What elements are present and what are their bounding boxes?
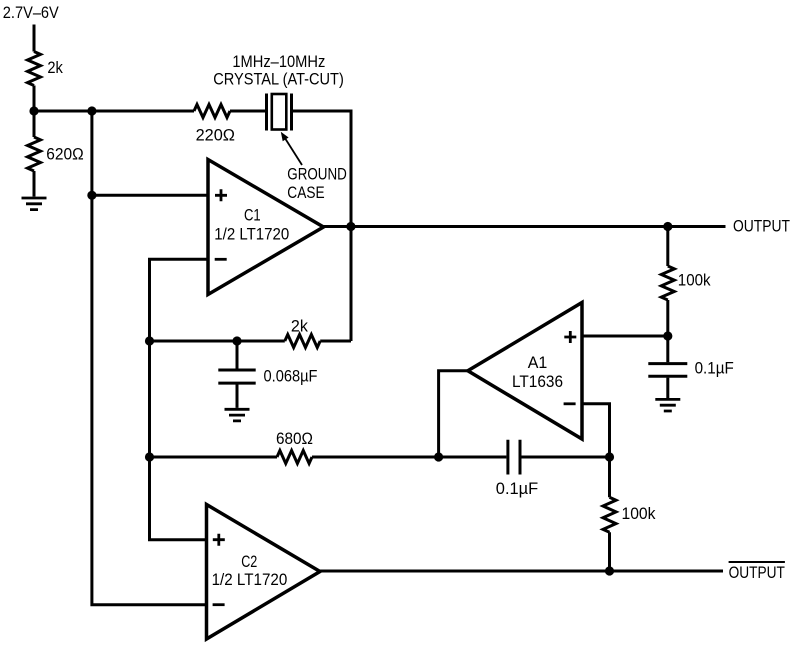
svg-text:2k: 2k — [47, 58, 63, 77]
svg-text:CASE: CASE — [287, 183, 324, 202]
svg-text:100k: 100k — [678, 271, 711, 290]
svg-text:0.1µF: 0.1µF — [496, 479, 538, 498]
svg-text:GROUND: GROUND — [287, 165, 347, 184]
svg-text:CRYSTAL (AT-CUT): CRYSTAL (AT-CUT) — [213, 69, 343, 88]
svg-text:1/2 LT1720: 1/2 LT1720 — [212, 570, 288, 589]
svg-text:LT1636: LT1636 — [512, 372, 563, 391]
svg-text:680Ω: 680Ω — [276, 429, 313, 448]
svg-text:C1: C1 — [244, 206, 261, 225]
svg-text:100k: 100k — [622, 504, 656, 523]
svg-text:1/2 LT1720: 1/2 LT1720 — [214, 224, 289, 243]
svg-text:A1: A1 — [528, 353, 548, 372]
svg-text:C2: C2 — [241, 552, 257, 571]
svg-text:OUTPUT: OUTPUT — [733, 217, 790, 236]
svg-text:2k: 2k — [291, 316, 308, 335]
svg-text:0.1µF: 0.1µF — [695, 358, 734, 377]
svg-text:620Ω: 620Ω — [46, 145, 83, 164]
svg-text:220Ω: 220Ω — [196, 126, 235, 145]
svg-text:0.068µF: 0.068µF — [264, 366, 318, 385]
svg-text:OUTPUT: OUTPUT — [729, 563, 785, 582]
svg-text:2.7V–6V: 2.7V–6V — [3, 3, 60, 22]
